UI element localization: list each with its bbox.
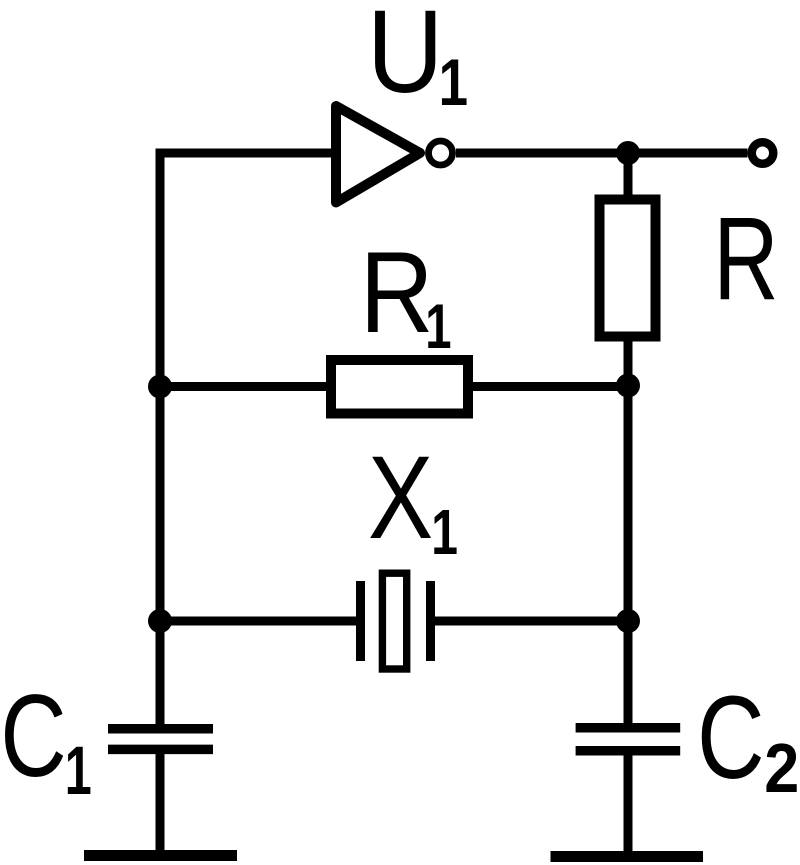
capacitor C2 bottom plate — [576, 746, 681, 756]
crystal X1 body — [382, 573, 406, 669]
svg-text:2: 2 — [764, 729, 799, 807]
svg-text:1: 1 — [431, 496, 458, 568]
wire X1 row left segment — [160, 617, 357, 626]
node R1 left on rail — [148, 375, 172, 399]
wire C2 column node down to C2 — [624, 621, 633, 728]
svg-text:R: R — [713, 193, 778, 325]
svg-text:X: X — [368, 432, 433, 564]
wire node to output terminal — [628, 149, 748, 158]
wire R1 row right segment — [466, 382, 628, 391]
svg-text:C: C — [0, 670, 66, 801]
wire resistor R bottom to node — [624, 336, 633, 387]
ground rail under C1 — [84, 850, 237, 861]
svg-text:1: 1 — [425, 292, 451, 362]
resistor R body — [600, 200, 656, 337]
wire bubble to node — [456, 149, 628, 158]
wire node down to resistor R — [624, 153, 633, 200]
crystal X1 left plate — [356, 581, 365, 661]
U1 inverter output bubble — [429, 141, 453, 165]
svg-text:1: 1 — [65, 732, 92, 809]
resistor R1 body — [331, 360, 468, 414]
wire top horizontal input to inverter — [156, 149, 341, 158]
wire C2 bottom to ground — [624, 751, 633, 857]
capacitor C2 top plate — [576, 723, 681, 733]
wire C1 bottom to ground — [156, 749, 165, 856]
wire left rail vertical — [156, 153, 165, 731]
crystal X1 right plate — [426, 581, 435, 661]
wire right column R1 node down to X1 node — [624, 386, 633, 622]
node at inverter output / R top — [616, 141, 640, 165]
node X1 right — [616, 609, 640, 633]
output terminal open circle — [752, 142, 774, 164]
svg-text:R: R — [360, 229, 434, 357]
capacitor C1 bottom plate — [108, 745, 213, 755]
ground rail under C2 — [551, 851, 704, 862]
node R bottom / R1 right — [616, 374, 640, 398]
node X1 left on rail — [148, 609, 172, 633]
op-amp U1 inverter triangle — [336, 106, 420, 203]
svg-text:1: 1 — [439, 45, 468, 119]
capacitor C1 top plate — [108, 724, 213, 734]
svg-text:C: C — [697, 672, 765, 804]
svg-text:U: U — [367, 0, 444, 118]
wire R1 row left segment — [160, 382, 333, 391]
wire X1 row right segment — [435, 617, 629, 626]
